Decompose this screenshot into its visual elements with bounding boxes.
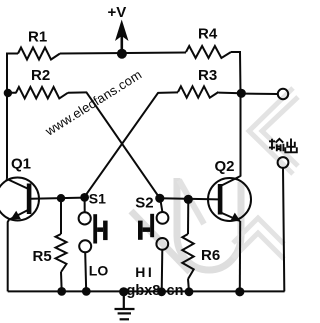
svg-text:Q2: Q2	[215, 158, 235, 175]
node ground junction	[119, 287, 128, 296]
node S2 bottom	[157, 287, 166, 296]
svg-text:R5: R5	[33, 248, 52, 265]
label shuchu (output)	[269, 139, 297, 153]
resistor R4	[186, 46, 231, 58]
wire left rail upper	[6, 54, 7, 179]
ground	[115, 292, 135, 319]
svg-text:S1: S1	[89, 191, 106, 207]
node R6 bottom	[185, 287, 194, 296]
watermark gray chevron upper right	[249, 88, 298, 174]
switch S2 pushbutton	[138, 199, 168, 292]
wire top rail R1 right segment	[60, 53, 186, 54]
node S1 bottom	[82, 287, 91, 296]
wire S2 to Q2 base	[160, 198, 218, 199]
svg-text:R6: R6	[201, 247, 220, 264]
resistor R3	[178, 86, 219, 97]
svg-text:Q1: Q1	[11, 156, 31, 173]
svg-text:R2: R2	[31, 67, 50, 84]
svg-text:R1: R1	[28, 29, 47, 46]
svg-text:R3: R3	[198, 67, 217, 84]
terminal output 1	[278, 89, 288, 99]
wire R3 right stub	[219, 92, 242, 95]
+V arrow	[115, 20, 129, 54]
node Q2 emitter bottom	[235, 287, 244, 296]
svg-text:S2: S2	[135, 195, 153, 212]
node S2	[155, 194, 164, 203]
watermark gray letter U	[177, 178, 241, 270]
watermark gray chevron lower right	[233, 218, 284, 259]
node R2 left junction	[4, 89, 12, 97]
wire left rail lower (Q1 emitter to ground rail)	[8, 220, 9, 292]
resistor R5	[60, 198, 62, 234]
resistor R6	[187, 199, 189, 234]
wire ground rail	[8, 290, 285, 292]
node S1	[80, 193, 89, 202]
terminal output 2	[278, 157, 289, 168]
wire top rail R4 right corner down to R3 junction	[231, 52, 241, 93]
wire R3 left stub	[158, 91, 178, 94]
wire output 2 down to ground rail	[283, 168, 284, 291]
node +V junction	[117, 49, 127, 59]
wire Q1 base to S1	[31, 198, 85, 199]
node R6 top junction	[184, 195, 193, 204]
transistor Q1	[0, 178, 39, 221]
wire Q2 collector up to junction	[240, 93, 242, 176]
switch S1 pushbutton	[79, 197, 108, 291]
wire to output terminal 1	[246, 93, 278, 95]
wire diagonal R3 to S1	[85, 93, 158, 196]
svg-text:R4: R4	[198, 26, 218, 43]
svg-text:HI: HI	[135, 264, 154, 280]
transistor Q2	[208, 176, 251, 221]
node R3 R4 collector junction	[237, 89, 246, 98]
svg-text:+V: +V	[108, 4, 127, 21]
svg-text:gbx8: gbx8	[127, 283, 161, 299]
watermark gray stripe 2	[179, 180, 204, 224]
svg-text:LO: LO	[89, 263, 109, 279]
wire diagonal R2 to S2	[87, 92, 160, 197]
node R5 bottom	[57, 287, 66, 296]
node R5 top junction	[57, 194, 65, 202]
svg-text:cn: cn	[167, 283, 184, 299]
wire Q2 emitter down to rail	[239, 221, 241, 292]
resistor R1	[6, 53, 18, 55]
resistor R2	[8, 92, 17, 94]
watermark gray stripe 1	[131, 211, 190, 272]
wire R2 right stub	[68, 91, 87, 93]
